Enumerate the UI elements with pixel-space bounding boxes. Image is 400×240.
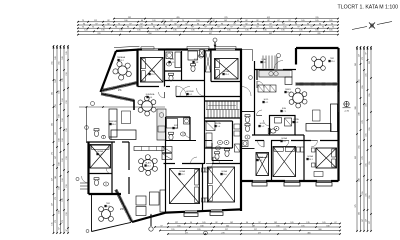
- svg-text:97: 97: [366, 52, 368, 54]
- bed B2: [215, 59, 239, 80]
- wall topright top: [296, 47, 339, 49]
- wall bath3 bottom y148: [205, 147, 233, 149]
- svg-text:105: 105: [322, 222, 325, 224]
- sill top w3: [215, 47, 236, 49]
- sill br w1: [252, 183, 267, 186]
- wall stairs bottom y118: [205, 117, 242, 119]
- door arc bl2: [206, 164, 213, 171]
- svg-text:135: 135: [137, 30, 140, 32]
- svg-text:195: 195: [301, 225, 304, 227]
- wall terrace left: [91, 194, 93, 232]
- section arrow top: [214, 42, 216, 49]
- svg-text:75: 75: [332, 27, 334, 29]
- svg-text:82: 82: [215, 222, 217, 224]
- svg-text:142: 142: [230, 222, 233, 224]
- dimension chain top block: [77, 17, 339, 36]
- svg-text:105: 105: [329, 20, 332, 22]
- wall br seg2: [266, 180, 285, 182]
- wall topright left: [295, 48, 297, 65]
- bath3 sink1: [218, 141, 223, 145]
- svg-text:165: 165: [55, 79, 57, 82]
- section marker top right: [352, 22, 392, 30]
- svg-text:180: 180: [59, 114, 61, 117]
- wall bed1 south: [138, 86, 160, 88]
- svg-text:90: 90: [153, 27, 155, 29]
- svg-text:67: 67: [277, 20, 279, 22]
- roof edge above trapezoid: [114, 46, 140, 47]
- svg-text:82: 82: [267, 20, 269, 22]
- door arc middle unit entry: [242, 87, 252, 97]
- svg-text:97: 97: [191, 27, 193, 29]
- svg-text:255: 255: [359, 145, 361, 148]
- svg-text:97: 97: [129, 23, 131, 25]
- wall br seg4: [331, 180, 339, 182]
- svg-text:210: 210: [66, 128, 68, 131]
- window br w1: [253, 179, 266, 181]
- wall y135 right unit: [252, 134, 270, 136]
- kitchen right: [259, 71, 292, 78]
- svg-text:180: 180: [62, 56, 64, 59]
- shaft bl: [162, 147, 172, 153]
- wall br seg3: [299, 180, 317, 182]
- svg-text:82: 82: [107, 20, 109, 22]
- wc left sink: [102, 135, 106, 138]
- svg-text:82: 82: [174, 23, 176, 25]
- svg-text:82: 82: [245, 23, 247, 25]
- svg-text:450: 450: [148, 33, 151, 35]
- svg-text:315: 315: [97, 33, 100, 35]
- svg-text:180: 180: [59, 186, 61, 189]
- svg-text:157: 157: [362, 219, 364, 222]
- svg-text:240: 240: [359, 178, 361, 181]
- svg-text:255: 255: [369, 161, 371, 164]
- tie line left: [79, 106, 165, 108]
- bed B5: [256, 153, 269, 176]
- door arc hall b: [257, 110, 263, 116]
- svg-text:+2.80: +2.80: [344, 111, 350, 113]
- svg-text:KUP: KUP: [174, 125, 179, 127]
- nightstands b4: [297, 147, 301, 152]
- wall divider x271.5: [271, 141, 273, 182]
- svg-text:225: 225: [366, 193, 368, 196]
- svg-text:KUP: KUP: [194, 59, 199, 61]
- svg-text:210: 210: [55, 104, 57, 107]
- svg-text:412: 412: [267, 17, 270, 19]
- svg-text:22: 22: [208, 20, 210, 22]
- svg-text:45: 45: [237, 20, 239, 22]
- kitchen left: [157, 109, 166, 140]
- svg-text:150: 150: [62, 118, 64, 121]
- svg-text:82: 82: [245, 20, 247, 22]
- svg-text:202: 202: [55, 132, 57, 135]
- svg-text:75: 75: [118, 23, 120, 25]
- svg-text:105: 105: [269, 27, 272, 29]
- bath1 toilet wc: [169, 73, 174, 81]
- svg-text:90: 90: [209, 23, 211, 25]
- svg-text:97: 97: [217, 27, 219, 29]
- svg-text:232: 232: [128, 17, 131, 19]
- level marker: [344, 101, 349, 106]
- svg-text:255: 255: [369, 93, 371, 96]
- svg-text:225: 225: [283, 229, 286, 231]
- svg-text:75: 75: [92, 27, 94, 29]
- bath3 tub: [206, 133, 212, 147]
- svg-text:90: 90: [151, 23, 153, 25]
- svg-text:165: 165: [177, 225, 180, 227]
- wall studio top y142: [87, 141, 116, 143]
- svg-text:270: 270: [362, 120, 364, 123]
- svg-text:75: 75: [82, 27, 84, 29]
- door arc b4: [282, 141, 289, 148]
- shaft bl2: [235, 144, 241, 152]
- svg-text:90: 90: [127, 27, 129, 29]
- svg-text:ULAZ: ULAZ: [261, 58, 267, 61]
- wall bed2 south y81.5: [211, 81, 241, 83]
- wall x254.5 landing: [254, 61, 256, 135]
- svg-text:DNEV: DNEV: [285, 89, 291, 91]
- svg-text:82: 82: [107, 23, 109, 25]
- closet bed2: [206, 51, 211, 72]
- svg-text:277: 277: [185, 232, 188, 234]
- table T1: [118, 66, 127, 75]
- door entry right unit: [276, 57, 278, 69]
- railing terrace diagonal: [116, 190, 132, 222]
- bath1 tub: [175, 52, 181, 68]
- wall stairs top y101: [205, 100, 242, 102]
- window top w2: [188, 48, 208, 50]
- wall top seg3 bath: [166, 48, 188, 50]
- wall terrace bottom: [92, 222, 132, 231]
- svg-text:240: 240: [359, 112, 361, 115]
- svg-text:75: 75: [182, 20, 184, 22]
- svg-text:97: 97: [310, 27, 312, 29]
- thin recess edge: [252, 50, 254, 62]
- svg-text:105: 105: [290, 222, 293, 224]
- sill bl w1: [184, 213, 198, 216]
- svg-text:105: 105: [329, 30, 332, 32]
- door arc unit1 entry: [176, 86, 187, 97]
- thin terrace edge left: [86, 107, 88, 143]
- svg-text:90: 90: [319, 23, 321, 25]
- svg-text:255: 255: [362, 85, 364, 88]
- wall bath3 y121: [205, 120, 233, 122]
- svg-text:135: 135: [101, 30, 104, 32]
- svg-text:225: 225: [366, 73, 368, 76]
- bath2 tub: [188, 51, 198, 60]
- dimension chain left block: [52, 45, 69, 234]
- svg-text:90: 90: [165, 27, 167, 29]
- svg-text:150: 150: [62, 178, 64, 181]
- svg-text:97: 97: [170, 20, 172, 22]
- svg-text:135: 135: [119, 30, 122, 32]
- svg-text:217: 217: [52, 178, 54, 181]
- svg-text:90: 90: [163, 23, 165, 25]
- door arc bl3: [213, 157, 220, 164]
- wall bath5: [270, 116, 296, 136]
- bed B6: [170, 169, 200, 204]
- svg-text:172: 172: [55, 220, 57, 223]
- door arc b5: [258, 141, 265, 148]
- entrance door studio outside: [82, 176, 89, 183]
- svg-text:90: 90: [197, 23, 199, 25]
- bed B3: [316, 148, 337, 168]
- wall studio bath y173.5: [89, 173, 113, 175]
- svg-text:105: 105: [177, 27, 180, 29]
- svg-text:KUP: KUP: [170, 59, 175, 61]
- sill top w1: [141, 47, 154, 49]
- sofa right L: [331, 104, 338, 132]
- bath4 sink: [216, 146, 221, 150]
- svg-text:112: 112: [94, 20, 97, 22]
- door arc studio: [106, 168, 112, 174]
- bath studio toilet: [94, 178, 99, 186]
- wall bedrow top y140.5: [255, 140, 264, 142]
- svg-text:SOBA: SOBA: [257, 156, 263, 159]
- svg-text:KUPA: KUPA: [293, 118, 299, 121]
- svg-text:97: 97: [160, 225, 162, 227]
- svg-text:97: 97: [243, 27, 245, 29]
- svg-text:135: 135: [263, 30, 266, 32]
- svg-text:262: 262: [359, 212, 361, 215]
- svg-text:150: 150: [62, 138, 64, 141]
- svg-text:142: 142: [274, 222, 277, 224]
- svg-text:97: 97: [297, 27, 299, 29]
- svg-text:315: 315: [315, 17, 318, 19]
- wc left toilet: [94, 129, 99, 137]
- svg-text:75: 75: [82, 20, 84, 22]
- svg-text:210: 210: [66, 184, 68, 187]
- wall x137 between terrace and bed1: [136, 50, 138, 87]
- svg-text:135: 135: [227, 30, 230, 32]
- svg-text:270: 270: [221, 232, 224, 234]
- sill br w3: [316, 183, 332, 186]
- wall bed1 right x164.5: [164, 50, 166, 87]
- bath3 sink2: [224, 141, 229, 145]
- svg-text:SOBA: SOBA: [307, 155, 313, 158]
- svg-text:60: 60: [141, 20, 143, 22]
- svg-text:105: 105: [139, 27, 142, 29]
- bed B7: [208, 167, 235, 202]
- svg-text:90: 90: [115, 27, 117, 29]
- svg-text:150: 150: [62, 158, 64, 161]
- wall post: [133, 100, 135, 110]
- window br w3: [317, 179, 331, 181]
- svg-text:210: 210: [66, 100, 68, 103]
- svg-text:90: 90: [257, 23, 259, 25]
- bath6 toilet: [169, 132, 174, 140]
- bath1 sink: [167, 62, 172, 66]
- bed B3 sidetable: [312, 148, 316, 152]
- svg-text:180: 180: [59, 210, 61, 213]
- svg-text:255: 255: [59, 61, 61, 64]
- bathm sink: [245, 135, 250, 139]
- svg-text:135: 135: [281, 30, 284, 32]
- svg-text:97: 97: [204, 27, 206, 29]
- svg-text:135: 135: [306, 222, 309, 224]
- svg-text:KUPA: KUPA: [215, 122, 221, 125]
- railing trapezoid bottom: [103, 83, 138, 91]
- bubble a: [85, 126, 89, 130]
- svg-text:37: 37: [212, 20, 214, 22]
- stairs treads: [206, 102, 240, 118]
- svg-text:262: 262: [355, 63, 357, 66]
- sofa L left: [109, 109, 117, 137]
- svg-text:135: 135: [299, 30, 302, 32]
- window br w2: [285, 179, 299, 181]
- svg-text:SOBA: SOBA: [281, 137, 287, 140]
- svg-text:180: 180: [276, 225, 279, 227]
- svg-text:135: 135: [245, 30, 248, 32]
- svg-text:97: 97: [269, 23, 271, 25]
- svg-text:150: 150: [196, 20, 199, 22]
- table T2 topright: [314, 59, 322, 67]
- wall bl seg1: [166, 211, 185, 214]
- sideboard right unit: [258, 85, 276, 92]
- svg-text:187: 187: [252, 225, 255, 227]
- svg-text:150: 150: [62, 98, 64, 101]
- svg-text:172: 172: [362, 57, 364, 60]
- svg-text:442: 442: [269, 33, 272, 35]
- door arc b3: [311, 141, 318, 148]
- svg-text:135: 135: [191, 30, 194, 32]
- svg-text:255: 255: [362, 191, 364, 194]
- svg-text:465: 465: [307, 232, 310, 234]
- svg-text:BLAG: BLAG: [145, 162, 151, 165]
- svg-text:255: 255: [359, 79, 361, 82]
- svg-text:255: 255: [369, 127, 371, 130]
- railing living north: [102, 94, 135, 101]
- svg-text:142: 142: [224, 20, 227, 22]
- bath3 shower: [206, 122, 215, 131]
- svg-text:105: 105: [315, 20, 318, 22]
- door arc unit2 entry: [197, 88, 205, 96]
- svg-text:97: 97: [233, 23, 235, 25]
- sill br w2: [284, 183, 300, 186]
- bath5 tub: [275, 118, 282, 124]
- svg-text:180: 180: [59, 90, 61, 93]
- wall bath south y80.5: [165, 80, 205, 82]
- svg-text:105: 105: [202, 222, 205, 224]
- svg-text:255: 255: [52, 61, 54, 64]
- window right wall: [337, 92, 339, 112]
- wall bath6 top y117: [166, 116, 191, 118]
- svg-text:300: 300: [318, 229, 321, 231]
- wall bl seg3: [222, 208, 241, 211]
- svg-text:157: 157: [366, 219, 368, 222]
- svg-text:KUHINJA: KUHINJA: [146, 93, 155, 96]
- svg-text:157: 157: [52, 203, 54, 206]
- bath3 toilet wc: [215, 152, 220, 160]
- wall building right: [337, 48, 339, 181]
- svg-text:HODNIK: HODNIK: [186, 91, 194, 93]
- wall x165.5 main: [165, 117, 167, 213]
- svg-text:SOBA: SOBA: [223, 70, 229, 73]
- svg-text:375: 375: [355, 204, 357, 207]
- dimension chain right block: [355, 46, 372, 232]
- wall divider x304: [303, 135, 305, 181]
- svg-text:277: 277: [258, 232, 261, 234]
- wall top seg2: [158, 48, 166, 50]
- svg-text:HOD: HOD: [260, 123, 265, 125]
- svg-text:210: 210: [66, 156, 68, 159]
- svg-text:105: 105: [283, 27, 286, 29]
- svg-text:457: 457: [209, 33, 212, 35]
- svg-text:90: 90: [83, 23, 85, 25]
- svg-text:217: 217: [254, 229, 257, 231]
- svg-text:495: 495: [176, 17, 179, 19]
- svg-text:TER: TER: [106, 203, 111, 205]
- bath5 toilet: [268, 129, 276, 134]
- svg-text:180: 180: [55, 56, 57, 59]
- bathm walls: [241, 111, 255, 113]
- svg-text:195: 195: [197, 229, 200, 231]
- svg-text:HOD: HOD: [264, 99, 269, 101]
- wall corridor y96.5: [176, 96, 241, 98]
- bath6 washer: [184, 118, 190, 124]
- window bl w2: [211, 209, 222, 211]
- svg-text:180: 180: [124, 20, 127, 22]
- wall studio left x88.5: [87, 142, 89, 194]
- nightstands: [202, 168, 206, 172]
- svg-text:210: 210: [66, 72, 68, 75]
- svg-text:390: 390: [355, 106, 357, 109]
- svg-text:90: 90: [331, 23, 333, 25]
- door arc kitchen: [257, 81, 264, 88]
- svg-text:97: 97: [95, 23, 97, 25]
- bubble b: [249, 76, 253, 80]
- svg-text:97: 97: [282, 23, 284, 25]
- window bl w1: [185, 210, 197, 212]
- wall studio bottom y194: [89, 193, 122, 195]
- bath4 walls: [211, 143, 213, 161]
- window top w1: [142, 48, 158, 50]
- wall entry y69.5: [255, 69, 275, 71]
- svg-text:285: 285: [317, 33, 320, 35]
- svg-text:127: 127: [175, 222, 178, 224]
- table T3 dining: [293, 93, 304, 104]
- svg-text:90: 90: [190, 222, 192, 224]
- svg-text:225: 225: [366, 103, 368, 106]
- bath6 tub: [167, 119, 178, 129]
- bath1 washer: [166, 52, 173, 59]
- cabinet row dining: [134, 147, 164, 151]
- bathm bidet: [245, 124, 250, 132]
- svg-text:97: 97: [230, 27, 232, 29]
- sofa cluster S2: [136, 196, 146, 205]
- svg-text:75: 75: [322, 27, 324, 29]
- svg-text:217: 217: [225, 229, 228, 231]
- svg-text:180: 180: [59, 162, 61, 165]
- svg-text:135: 135: [209, 30, 212, 32]
- bath2 toilet: [191, 64, 196, 72]
- wall x241 spine: [240, 49, 242, 211]
- dimension chain bottom block: [154, 222, 341, 235]
- entry steps right unit: [263, 56, 275, 69]
- svg-text:180: 180: [59, 138, 61, 141]
- svg-text:127: 127: [369, 221, 371, 224]
- svg-text:180: 180: [326, 225, 329, 227]
- svg-text:SOBA: SOBA: [97, 150, 103, 153]
- wall spine x204.5: [204, 50, 206, 165]
- svg-text:90: 90: [307, 23, 309, 25]
- bath5 shower: [285, 118, 292, 126]
- svg-text:150: 150: [62, 198, 64, 201]
- wall br seg1: [241, 180, 253, 182]
- svg-text:TER: TER: [330, 58, 335, 60]
- svg-text:120: 120: [84, 30, 87, 32]
- svg-text:SOBA: SOBA: [179, 170, 185, 173]
- svg-text:97: 97: [288, 20, 290, 22]
